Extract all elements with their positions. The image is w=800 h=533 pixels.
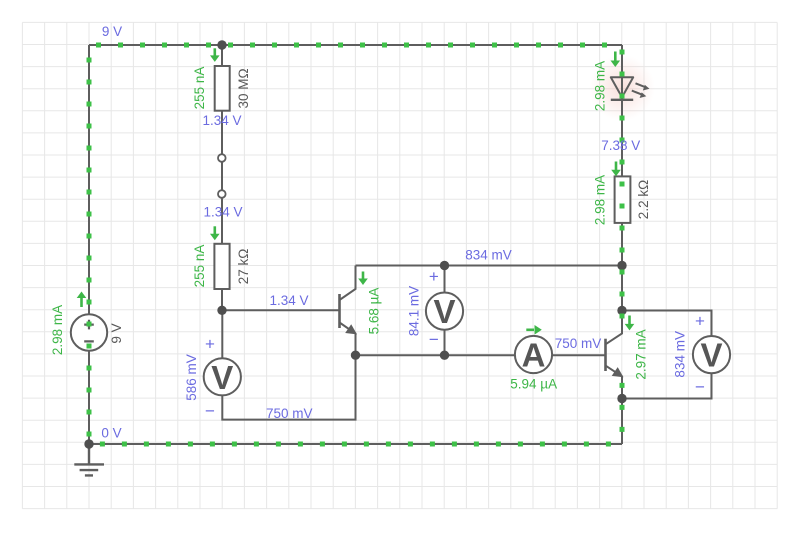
svg-text:2.98 mA: 2.98 mA xyxy=(593,175,608,225)
svg-text:V: V xyxy=(211,359,233,396)
svg-text:834 mV: 834 mV xyxy=(465,248,512,263)
svg-text:1.34 V: 1.34 V xyxy=(202,113,241,128)
svg-text:9 V: 9 V xyxy=(102,24,122,39)
svg-text:V: V xyxy=(700,337,722,374)
svg-text:5.68 µA: 5.68 µA xyxy=(367,288,382,335)
svg-text:0 V: 0 V xyxy=(101,425,121,440)
svg-text:84.1 mV: 84.1 mV xyxy=(407,286,422,336)
svg-text:2.98 mA: 2.98 mA xyxy=(50,305,65,355)
svg-text:V: V xyxy=(433,293,455,330)
svg-text:2.97 mA: 2.97 mA xyxy=(634,329,649,379)
svg-text:27 kΩ: 27 kΩ xyxy=(236,249,251,285)
svg-text:255 nA: 255 nA xyxy=(192,67,207,110)
svg-text:+: + xyxy=(205,335,215,354)
svg-text:+: + xyxy=(429,267,439,286)
svg-text:+: + xyxy=(695,312,705,331)
svg-text:A: A xyxy=(522,337,546,374)
svg-text:2.98 mA: 2.98 mA xyxy=(593,61,608,111)
svg-text:255 nA: 255 nA xyxy=(192,245,207,288)
svg-text:750 mV: 750 mV xyxy=(555,336,602,351)
svg-text:1.34 V: 1.34 V xyxy=(203,205,242,220)
svg-text:−: − xyxy=(429,330,439,349)
svg-text:2.2 kΩ: 2.2 kΩ xyxy=(636,180,651,219)
svg-text:9 V: 9 V xyxy=(109,323,124,343)
svg-text:750 mV: 750 mV xyxy=(266,406,313,421)
svg-text:7.38 V: 7.38 V xyxy=(601,138,640,153)
svg-text:834 mV: 834 mV xyxy=(672,331,687,378)
svg-text:30 MΩ: 30 MΩ xyxy=(236,68,251,108)
svg-text:5.94 µA: 5.94 µA xyxy=(510,377,557,392)
svg-text:−: − xyxy=(695,378,705,397)
svg-text:1.34 V: 1.34 V xyxy=(269,293,308,308)
svg-text:586 mV: 586 mV xyxy=(184,354,199,401)
svg-text:−: − xyxy=(205,402,215,421)
